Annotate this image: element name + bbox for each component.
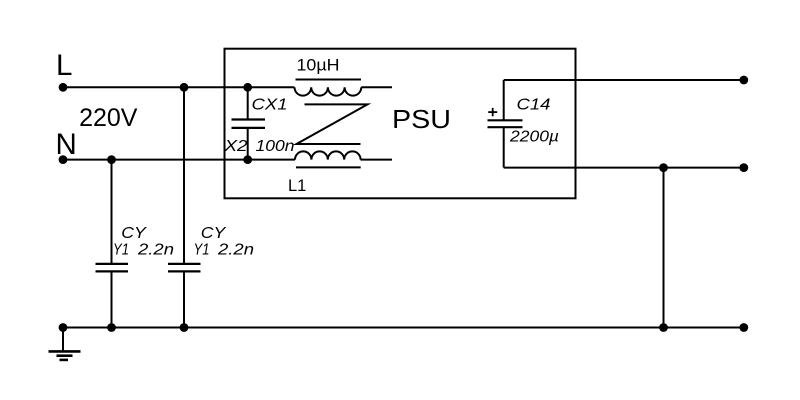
- inductor L1 top winding: [295, 87, 362, 95]
- core Z symbol: [297, 104, 368, 144]
- capacitor CY2: [168, 87, 201, 327]
- svg-text:CX1: CX1: [252, 97, 288, 114]
- junction N / CY1: [107, 155, 116, 164]
- svg-text:X2: X2: [223, 138, 247, 155]
- svg-text:2200µ: 2200µ: [509, 129, 559, 146]
- wire L input: [63, 86, 295, 88]
- junction output / ground: [659, 323, 668, 332]
- inductor L1 bottom winding: [295, 151, 361, 159]
- terminal output bottom: [739, 163, 748, 172]
- core line top: [296, 79, 362, 81]
- svg-text:CY: CY: [201, 225, 227, 242]
- terminal ground right: [739, 323, 748, 332]
- svg-text:N: N: [56, 128, 77, 161]
- svg-text:PSU: PSU: [392, 106, 451, 134]
- PSU box: [225, 49, 576, 199]
- capacitor CY1: [96, 160, 129, 328]
- svg-text:L1: L1: [288, 177, 306, 195]
- junction CY1 / ground: [107, 323, 116, 332]
- wire N input: [63, 159, 295, 161]
- capacitor C14: [488, 80, 523, 168]
- terminal ground left: [59, 323, 68, 332]
- terminal N: [59, 155, 68, 164]
- svg-text:C14: C14: [517, 97, 551, 114]
- ground symbol: [49, 328, 81, 360]
- junction CY2 / ground: [180, 323, 189, 332]
- capacitor CX1: [232, 87, 266, 159]
- terminal L: [59, 83, 68, 92]
- wire output top: [504, 79, 744, 81]
- wire choke bottom to PSU: [361, 159, 393, 161]
- wire choke top to PSU: [361, 86, 392, 88]
- svg-text:CY: CY: [121, 225, 147, 242]
- junction CX1 top: [243, 83, 252, 92]
- core line bottom: [296, 166, 361, 168]
- svg-text:Y12.2n: Y12.2n: [113, 242, 174, 259]
- terminal output top: [739, 76, 748, 85]
- svg-text:Y12.2n: Y12.2n: [194, 242, 255, 259]
- svg-text:100n: 100n: [256, 138, 295, 155]
- junction output bottom: [659, 163, 668, 172]
- wire output to ground: [663, 168, 665, 328]
- wire ground bus: [63, 327, 744, 329]
- svg-text:10µH: 10µH: [297, 57, 340, 75]
- svg-text:L: L: [56, 49, 72, 82]
- junction CX1 bottom: [243, 155, 252, 164]
- wire output bottom: [504, 167, 744, 169]
- junction L / CY2: [180, 83, 189, 92]
- label + polarity: [488, 108, 497, 116]
- svg-text:220V: 220V: [79, 104, 138, 132]
